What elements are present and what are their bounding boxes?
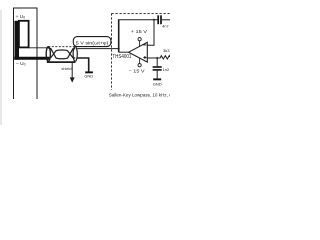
filter dashed box left xyxy=(111,13,113,90)
svg-text:− 15 V: − 15 V xyxy=(129,68,146,73)
inverting input wire xyxy=(147,20,154,45)
cable shield dashed top xyxy=(48,46,75,48)
twisted wire B xyxy=(49,50,76,58)
svg-text:4n7: 4n7 xyxy=(162,24,168,28)
ground bar GND right xyxy=(153,78,161,80)
svg-text:THS4001: THS4001 xyxy=(112,54,131,60)
resistor R 3k3 zigzag xyxy=(160,56,170,59)
scan artifact left edge xyxy=(0,10,2,125)
cable right ellipse xyxy=(73,47,77,62)
op-amp output wire xyxy=(119,51,129,53)
svg-text:1n2: 1n2 xyxy=(163,67,170,72)
wire thin (white electrode to cable) xyxy=(29,47,50,49)
positive supply terminal xyxy=(139,41,141,47)
wire cable top exit xyxy=(77,48,119,50)
cable left ellipse xyxy=(46,47,50,62)
sensor tube right wall xyxy=(36,8,38,99)
svg-text:+ 15 V: + 15 V xyxy=(131,29,149,34)
svg-text:− U0: − U0 xyxy=(16,61,26,67)
svg-text:GND: GND xyxy=(153,81,162,86)
node dot feedback junction xyxy=(153,19,155,21)
filter dashed box top xyxy=(112,12,171,14)
svg-text:3k3: 3k3 xyxy=(163,48,170,53)
wire thick (black electrode to cable) xyxy=(14,57,49,60)
svg-text:GND: GND xyxy=(84,74,93,79)
non-inverting input wire xyxy=(147,57,160,59)
svg-text:shield: shield xyxy=(61,66,71,71)
shield annotation arrow xyxy=(71,63,73,80)
op-amp plus input symbol xyxy=(143,57,146,59)
capacitor C2 1n2 xyxy=(156,58,158,66)
electrode white bar xyxy=(19,21,29,48)
ground bar GND left xyxy=(85,71,93,73)
svg-text:+ U0: + U0 xyxy=(16,14,26,20)
source label box 5V sin xyxy=(73,37,111,47)
wire after feedback cap xyxy=(162,19,170,21)
op-amp minus input symbol xyxy=(143,44,146,46)
sensor tube top edge xyxy=(13,7,38,9)
node dot output/cable junction xyxy=(118,48,120,50)
sensor tube left wall xyxy=(13,8,15,99)
wire cable bottom exit xyxy=(77,58,89,72)
op-amp U1 THS4001 triangle xyxy=(129,42,148,62)
negative supply terminal xyxy=(139,58,141,64)
feedback top wire xyxy=(118,19,158,21)
cable shield bottom solid xyxy=(47,61,76,63)
output node vertical wire xyxy=(118,20,120,52)
svg-text:Sallen-Key Lowpass, 10 kHz, c: Sallen-Key Lowpass, 10 kHz, c xyxy=(109,93,170,99)
twisted wire A xyxy=(49,48,76,59)
capacitor C feedback plates xyxy=(157,15,159,24)
node dot lowpass junction xyxy=(156,57,158,59)
svg-text:5 V sin(ωt+φ): 5 V sin(ωt+φ) xyxy=(76,40,109,46)
electrode black bar xyxy=(15,21,20,60)
